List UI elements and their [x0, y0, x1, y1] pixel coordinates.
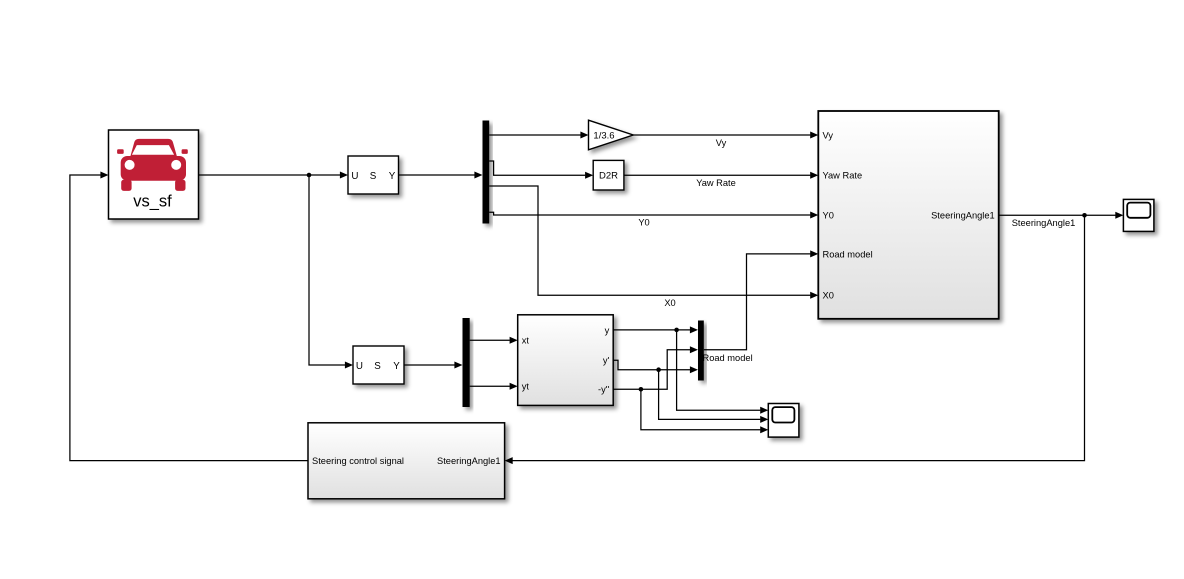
svg-text:Y: Y: [393, 361, 400, 372]
svg-text:Y0: Y0: [823, 210, 834, 220]
wire -y'' output to mux Road model: [613, 346, 698, 391]
wire SteeringAngle1 output to scope (upper right): [999, 212, 1124, 219]
wire y' output to mux Road model: [613, 360, 698, 373]
block Steering control signal: [308, 423, 505, 499]
wire demux lower to yt: [470, 383, 518, 390]
wire gain to Vy input: [633, 132, 818, 139]
svg-text:U: U: [356, 361, 363, 372]
signal label Vy: [716, 138, 727, 148]
svg-text:xt: xt: [522, 336, 530, 346]
car icon (red) inside vs_sf: [117, 139, 188, 191]
wire selector lower to demux (lower): [404, 362, 463, 369]
svg-text:y': y': [603, 356, 610, 366]
wire vs_sf output to selector U S Y (upper): [199, 172, 348, 179]
block road curvature subsystem (xt/yt -> y, y', -y''): [518, 315, 614, 406]
gain 1/3.6: [589, 120, 634, 150]
wire y' branch to scope (lower) input 2: [659, 370, 769, 423]
block D2R: [593, 160, 624, 190]
wire SteeringAngle1 branch down to Steering control signal block: [505, 215, 1085, 464]
svg-text:X0: X0: [664, 298, 675, 308]
block selector U S Y (upper): [348, 156, 399, 194]
svg-text:SteeringAngle1: SteeringAngle1: [437, 456, 501, 466]
svg-text:Vy: Vy: [823, 130, 834, 140]
wire y output to mux Road model: [613, 326, 698, 333]
svg-text:Y0: Y0: [638, 218, 649, 228]
signal label Y0: [638, 218, 649, 228]
signal label SteeringAngle1: [1012, 218, 1076, 228]
svg-text:U: U: [351, 171, 358, 182]
wire demux to D2R: [489, 161, 593, 179]
svg-text:S: S: [370, 171, 377, 182]
block vs_sf (vehicle plant): [109, 130, 199, 219]
block selector U S Y (lower): [353, 346, 404, 384]
svg-text:S: S: [374, 361, 381, 372]
wire branch down to selector U S Y (lower): [309, 175, 353, 369]
wire demux to gain 1/3.6 (Vy): [489, 132, 588, 139]
wire mux Road model to subsystem Road model input: [704, 250, 819, 349]
mux bar Road model: [698, 321, 704, 381]
wire demux to X0 input: [489, 186, 818, 299]
svg-text:Yaw Rate: Yaw Rate: [696, 178, 736, 188]
signal label X0: [664, 298, 675, 308]
svg-text:X0: X0: [823, 291, 834, 301]
block lane-keeping subsystem (Vy/YawRate/Y0/RoadModel/X0 -> SteeringAngle1): [818, 111, 998, 319]
signal label Yaw Rate: [696, 178, 736, 188]
wire demux to Y0 input: [489, 212, 818, 219]
svg-text:D2R: D2R: [599, 171, 618, 182]
svg-text:Vy: Vy: [716, 138, 727, 148]
label Road model: [703, 353, 753, 363]
svg-text:yt: yt: [522, 382, 530, 392]
svg-text:Steering control signal: Steering control signal: [312, 456, 404, 466]
wire feedback from Steering control signal to vs_sf input: [70, 172, 308, 461]
svg-text:Yaw Rate: Yaw Rate: [823, 171, 863, 181]
scope Scope (lower): [768, 404, 799, 438]
svg-text:Road model: Road model: [703, 353, 753, 363]
svg-text:1/3.6: 1/3.6: [593, 130, 614, 141]
svg-text:vs_sf: vs_sf: [133, 193, 172, 211]
demux bar (lower): [463, 318, 470, 407]
svg-text:-y'': -y'': [598, 385, 610, 395]
scope Scope1 (upper right): [1123, 199, 1154, 231]
svg-text:SteeringAngle1: SteeringAngle1: [931, 211, 995, 221]
wire D2R to Yaw Rate input: [624, 172, 818, 179]
demux bar (upper): [483, 121, 490, 224]
wire y branch to scope (lower) input 1: [677, 330, 769, 414]
svg-text:Y: Y: [389, 171, 396, 182]
wire demux lower to xt: [470, 337, 518, 344]
wire -y'' branch to scope (lower) input 3: [641, 389, 768, 433]
svg-text:SteeringAngle1: SteeringAngle1: [1012, 218, 1076, 228]
svg-text:y: y: [605, 325, 610, 335]
svg-text:Road model: Road model: [823, 249, 873, 259]
wire selector upper to demux: [399, 172, 483, 179]
label vs_sf: [133, 193, 172, 211]
